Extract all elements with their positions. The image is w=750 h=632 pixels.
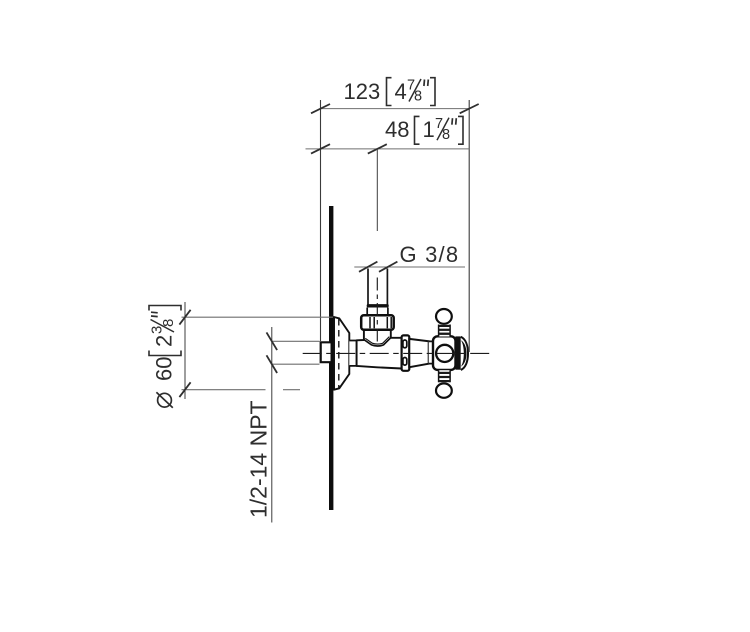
tick right 123: [460, 104, 479, 113]
bottom ball of cross handle: [436, 383, 452, 397]
NPT extension line top: [272, 340, 320, 342]
tick top dia60: [179, 310, 190, 325]
svg-text:1/2-14 NPT: 1/2-14 NPT: [246, 400, 272, 518]
extension line right (handle end): [468, 100, 470, 352]
NPT leader vertical line: [271, 327, 273, 523]
valve body (tapered): [357, 330, 402, 369]
dia60 extension bottom: [182, 389, 266, 391]
bonnet cone: [409, 339, 428, 367]
svg-text:2: 2: [152, 335, 177, 347]
dimension line 123: [321, 108, 470, 110]
tick left 48: [311, 144, 330, 153]
svg-text:8: 8: [442, 127, 450, 143]
vertical centerline of outlet: [376, 278, 378, 347]
bracket group 4 7/8 inch: [387, 78, 436, 106]
compression nut: [361, 315, 394, 329]
tick middle 48 (outlet axis): [368, 144, 387, 153]
tick bottom dia60: [179, 382, 190, 397]
extension line outlet axis: [376, 149, 378, 231]
extension line left (pipe end): [320, 100, 322, 341]
svg-text:8: 8: [160, 319, 177, 327]
saddle outer curve under outlet: [364, 338, 391, 346]
label dia 60 rotated: [149, 306, 182, 408]
end dome cap: [461, 337, 468, 370]
svg-text:1: 1: [423, 117, 435, 142]
flange hidden dashed line: [338, 319, 340, 388]
tick right G3/8: [379, 262, 397, 272]
dia60 extension top: [182, 316, 334, 318]
olive body: [367, 308, 388, 316]
compression olive top band: [367, 304, 389, 307]
saddle inner curve: [365, 337, 389, 345]
escutcheon flange: [334, 317, 349, 390]
dome crescent seam: [461, 340, 467, 366]
front ball (handle arm toward viewer): [436, 345, 453, 362]
dia60 extension bottom segment 2: [283, 389, 300, 391]
svg-text:8: 8: [414, 89, 422, 105]
handle hub: [433, 336, 456, 370]
wall (mounting surface): [329, 206, 333, 510]
NPT extension line bottom: [272, 363, 320, 365]
svg-text:G 3/8: G 3/8: [400, 242, 460, 267]
stem neck to hub: [429, 341, 434, 363]
NPT inlet pipe stub behind wall: [321, 342, 331, 362]
ring slot lower: [403, 358, 407, 366]
ring slot upper: [403, 340, 407, 348]
neck between flange and body: [349, 341, 356, 366]
G 3/8 leader line: [354, 266, 465, 268]
svg-text:123: 123: [344, 79, 381, 104]
tick top NPT: [267, 332, 278, 350]
tick left 123: [311, 104, 330, 113]
svg-text:48: 48: [385, 117, 409, 142]
outlet pipe (G 3/8): [367, 269, 369, 305]
top ball of cross handle: [436, 309, 452, 324]
dia60 dimension line: [184, 302, 186, 399]
flange back face line: [333, 317, 335, 390]
bottom spoke neck with ridges: [439, 370, 451, 382]
top spoke neck with ridges: [439, 325, 451, 337]
nut hex flat lines: [370, 317, 391, 328]
bracket group 1 7/8 inch: [415, 116, 464, 144]
dimension line 48: [306, 148, 470, 150]
tick bottom NPT: [267, 355, 278, 373]
svg-text:4: 4: [395, 79, 407, 104]
svg-text:60: 60: [152, 357, 177, 381]
decorative black ring band: [455, 336, 460, 369]
tick left G3/8: [359, 262, 377, 272]
bonnet ring band: [402, 335, 410, 370]
horizontal centerline: [303, 352, 490, 354]
